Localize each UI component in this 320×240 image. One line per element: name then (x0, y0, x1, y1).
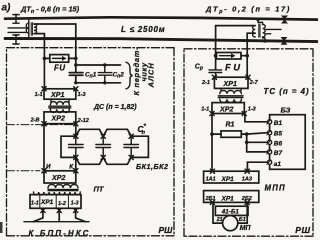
capacitor Cp series (209, 70, 222, 77)
junction FU right-block left (214, 54, 218, 58)
transformer PT primary winding (48, 184, 78, 188)
rail bottom (5, 39, 318, 42)
pin 1-1 TS (210, 111, 214, 115)
connector XP2 TS box (212, 103, 244, 114)
pin X mark 2 (57, 208, 61, 212)
node K (74, 169, 78, 173)
wire pin2 down (58, 208, 60, 221)
junction bottom bus left (74, 81, 77, 84)
capacitor block BK left loop (61, 136, 76, 157)
junction BK top 3 (129, 134, 133, 138)
wire V6 (247, 141, 268, 143)
wire XP2 2-12 down to BK (75, 124, 77, 137)
terminal V1 (267, 120, 272, 124)
wire right leg down to FU node (75, 24, 77, 72)
insulated joint bottom-right (281, 37, 288, 45)
junction BK bottom 1 (74, 155, 78, 159)
svg-text:1-1: 1-1 (201, 107, 209, 113)
svg-text:1А3: 1А3 (242, 177, 252, 183)
junction BK bottom 3 (129, 155, 133, 159)
svg-text:ХР2: ХР2 (51, 174, 65, 182)
fuse FU left box (50, 55, 69, 63)
border divider RSh lower (7, 170, 41, 172)
transformer DTr secondary winding (253, 26, 256, 37)
wire pin3 down (75, 208, 77, 218)
svg-text:1-3: 1-3 (78, 92, 86, 98)
wire pin1 down (42, 208, 44, 218)
pin X mark 3 (74, 208, 78, 212)
svg-text:Ср: Ср (195, 64, 203, 72)
label 1A1 XP1 1A3 (206, 176, 252, 183)
pin 1A3 (245, 169, 249, 173)
svg-text:МП: МП (240, 225, 252, 232)
wire V1 (245, 114, 268, 122)
wire FU left lead (44, 57, 49, 59)
wire left leg down (43, 34, 45, 89)
junction DTr top rail (256, 18, 260, 22)
insulated joint top-left (13, 14, 19, 23)
wire motor right (238, 202, 247, 223)
pin 1-1 XP1 DS (42, 87, 46, 91)
svg-text:FU: FU (54, 63, 66, 72)
junction R1 left (210, 132, 214, 136)
transformer DTr primary winding (258, 19, 265, 41)
capacitor BK C3 (124, 136, 139, 157)
terminal a1 (267, 160, 272, 164)
capacitor block BK bottom bumps (76, 157, 131, 164)
wire BK down to K (75, 157, 77, 170)
capacitor BK C2 (96, 136, 111, 157)
scan smudge left edge (0, 222, 3, 233)
wire DTp stub lower (8, 31, 26, 33)
label K peredatchiku ALSN (132, 47, 155, 96)
svg-text:МПП: МПП (265, 184, 286, 193)
svg-text:ХР1: ХР1 (40, 199, 54, 206)
border RSh right block (184, 49, 313, 236)
pin 1A1 (210, 169, 214, 173)
svg-text:2-12: 2-12 (77, 118, 89, 124)
junction BK top 2 (101, 134, 105, 138)
resistor R1 (212, 131, 247, 137)
pin 2-1 TS (212, 75, 216, 79)
capacitor block BK right loop (131, 136, 148, 157)
svg-text:ДТр- 0,2 (п = 17): ДТр- 0,2 (п = 17) (205, 5, 291, 16)
svg-text:ХР1: ХР1 (223, 80, 237, 88)
capacitor BK C1 (69, 136, 84, 157)
terminal V5 (267, 131, 272, 135)
wire V7 (247, 151, 268, 153)
pin 2-7 TS (246, 75, 250, 79)
svg-text:В1: В1 (274, 120, 283, 127)
svg-text:а): а) (2, 3, 12, 14)
svg-text:В6: В6 (274, 140, 283, 147)
svg-text:РШ: РШ (295, 225, 310, 235)
svg-text:В5: В5 (274, 131, 283, 138)
pin 1-3 XP1 DS (74, 87, 78, 91)
wire XP2 2-V down to I (43, 124, 45, 171)
wire DTr tap1 left (216, 25, 256, 27)
svg-text:Сп1: Сп1 (85, 71, 97, 79)
label 2B1 XP1 2B2 (205, 195, 252, 202)
transformer DS windings (49, 99, 71, 112)
svg-text:1А1: 1А1 (206, 177, 216, 183)
connector XP2 PT box (44, 171, 76, 183)
junction BK bottom 2 (101, 155, 105, 159)
wire DTp stub upper (8, 27, 26, 29)
svg-text:Б1: Б1 (239, 217, 246, 223)
svg-text:L ≤ 2500м: L ≤ 2500м (121, 25, 166, 34)
block 41-B1 box (215, 206, 248, 215)
svg-text:2-1: 2-1 (201, 80, 210, 86)
svg-text:ХР1: ХР1 (50, 91, 64, 99)
svg-text:АЛСН: АЛСН (146, 62, 155, 88)
pin X mark 1 (41, 208, 45, 212)
border RSh left block (7, 48, 175, 236)
svg-text:21: 21 (216, 217, 223, 223)
wire diagonal right (76, 218, 86, 222)
wire DTr tap2 (247, 33, 255, 76)
svg-text:ДТп - 0,6 (п = 15): ДТп - 0,6 (п = 15) (20, 4, 80, 15)
transformer DTp core (31, 23, 32, 36)
connector XP1 PT box (30, 195, 81, 209)
svg-text:БК1,БК2: БК1,БК2 (136, 162, 169, 171)
node I (42, 169, 46, 173)
pin 1-3 TS (242, 111, 246, 115)
svg-text:ТС (п = 4): ТС (п = 4) (264, 87, 310, 96)
svg-text:1-2: 1-2 (58, 201, 66, 207)
wire a1 (247, 162, 267, 171)
block BZ box (270, 115, 306, 170)
junction R1 right (245, 132, 249, 136)
svg-text:ДС (п = 1,82): ДС (п = 1,82) (93, 104, 137, 111)
pin 2-V XP2 DS (42, 122, 46, 126)
junction V6 (245, 141, 249, 145)
wire FU right lead (69, 57, 76, 59)
svg-text:1-3: 1-3 (248, 107, 256, 113)
wire cap bottom bus (76, 82, 121, 84)
junction FU right-block right (245, 54, 249, 58)
wire XP2TS 1-1 down to MPP (211, 114, 213, 172)
svg-text:ХР2: ХР2 (51, 115, 65, 123)
wire V5 (247, 133, 268, 134)
connector XP2 DS box (44, 112, 76, 124)
wire DTr stub lower (266, 33, 271, 35)
insulated joint top-right (281, 16, 288, 24)
wire DTp tap1 to right leg (34, 23, 76, 25)
wire cable bus (24, 221, 89, 223)
svg-text:2-В: 2-В (30, 117, 40, 123)
svg-text:БЗ: БЗ (281, 105, 291, 114)
pin 2-12 XP2 DS (74, 122, 78, 126)
junction DTr bottom rail (263, 39, 267, 43)
transformer DTr core (259, 24, 260, 37)
transformer TS windings (218, 88, 243, 102)
svg-text:И: И (46, 163, 51, 170)
svg-text:1-1: 1-1 (31, 200, 39, 206)
transformer DTp primary winding (26, 19, 29, 39)
terminal V7 (267, 150, 272, 154)
junction Cp2 top (103, 63, 106, 66)
svg-text:ХР1: ХР1 (221, 195, 235, 202)
connector XP1 MPP box2 (204, 191, 259, 203)
svg-text:FU: FU (225, 62, 243, 72)
junction FU right (74, 57, 78, 61)
rail top (5, 17, 318, 19)
transformer DTp secondary winding (34, 24, 37, 34)
capacitor Cp1 (69, 73, 83, 83)
svg-text:41-Б1: 41-Б1 (221, 208, 240, 215)
svg-text:а1: а1 (274, 161, 282, 168)
junction BK top 1 (74, 134, 78, 138)
svg-text:1-3: 1-3 (71, 200, 79, 206)
connector XP1 MPP box1 (204, 171, 259, 183)
svg-text:Сп2: Сп2 (113, 71, 125, 79)
svg-text:1-1: 1-1 (35, 92, 43, 98)
wire chain vertical (246, 134, 248, 152)
connector XP1 TS box (214, 77, 248, 88)
fuse FU right box (216, 53, 241, 60)
insulated joint bottom-left (13, 35, 19, 45)
connector XP1 DS box (44, 89, 76, 99)
brace to ALSN (126, 62, 133, 89)
svg-text:В7: В7 (274, 150, 283, 157)
svg-text:ХР2: ХР2 (219, 105, 233, 113)
wire cap top bus (76, 64, 121, 66)
junction Cp2 bottom (103, 81, 106, 84)
motor MP circle (223, 216, 238, 231)
svg-text:С*п: С*п (138, 123, 147, 136)
terminal V6 (267, 140, 272, 144)
svg-text:ХР1: ХР1 (221, 176, 235, 183)
svg-text:R1: R1 (226, 121, 235, 128)
wire motor left (213, 202, 223, 223)
transformer PT secondary winding (34, 192, 81, 195)
wire diagonal left (33, 218, 43, 222)
pin 2B2 (245, 200, 249, 204)
wire FU lead right (241, 55, 247, 57)
border divider RSh upper (7, 124, 75, 126)
capacitor block BK top bumps (76, 129, 131, 136)
junction top bus left (74, 63, 77, 66)
wire DTr stub upper (266, 28, 281, 30)
junction FU left (43, 57, 47, 61)
capacitor Cp2 (98, 65, 111, 83)
svg-text:ПТ: ПТ (94, 184, 105, 193)
wire left leg to Cp (215, 26, 217, 70)
pin 2B1 (210, 200, 214, 204)
svg-text:РШ: РШ (159, 225, 174, 235)
wire DTp tap2 (34, 33, 44, 35)
svg-text:2-7: 2-7 (249, 80, 259, 86)
transformer PT core bar (48, 189, 79, 192)
